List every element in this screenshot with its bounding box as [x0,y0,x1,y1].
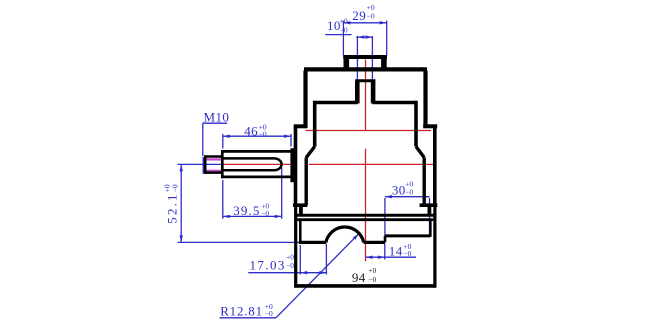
svg-text:14: 14 [389,244,403,259]
svg-text:−0: −0 [259,129,267,138]
svg-text:−0: −0 [170,184,179,192]
svg-text:+0: +0 [340,16,348,25]
svg-text:+0: +0 [368,266,376,275]
svg-text:−0: −0 [265,309,273,318]
svg-text:−0: −0 [367,12,375,21]
svg-text:30: 30 [392,182,406,197]
svg-text:94: 94 [352,270,366,285]
svg-text:−0: −0 [403,249,411,258]
svg-text:29: 29 [352,8,366,23]
svg-text:46: 46 [244,123,258,138]
svg-text:−0: −0 [261,209,269,218]
svg-text:52.1: 52.1 [165,192,180,224]
svg-text:M10: M10 [204,109,230,124]
svg-text:−0: −0 [340,25,348,34]
svg-text:−0: −0 [368,275,376,284]
svg-text:−0: −0 [286,261,294,270]
svg-text:R12.81: R12.81 [220,304,263,319]
svg-text:17.03: 17.03 [250,258,286,273]
svg-text:−0: −0 [405,188,413,197]
svg-text:39.5: 39.5 [233,203,260,218]
